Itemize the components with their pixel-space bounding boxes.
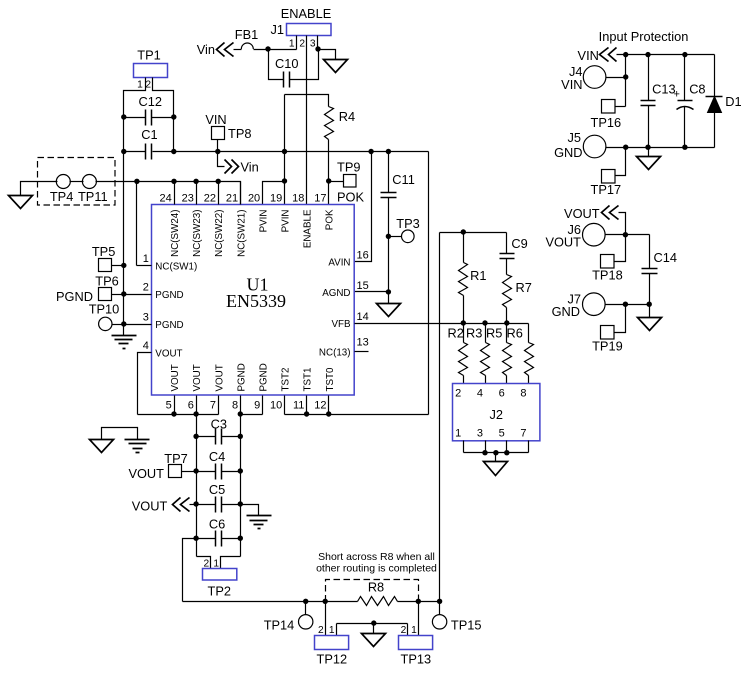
ground (J1 pin3) [324, 60, 348, 73]
wire R4 bottom to POK node [328, 140, 330, 182]
svg-text:VOUT: VOUT [132, 499, 168, 514]
svg-text:VIN: VIN [205, 112, 226, 127]
svg-text:5: 5 [166, 400, 172, 412]
junction TP5 node [121, 263, 126, 268]
wire R2 bottom lead [463, 376, 465, 384]
wire pin19 stub [284, 182, 286, 205]
wire TP4-TP11 [70, 181, 84, 183]
wire VIN vertical branch [625, 55, 627, 107]
svg-text:6: 6 [188, 400, 194, 412]
pin 7 stub [218, 396, 220, 415]
junction C4 left [193, 468, 198, 473]
J1 pin 1 stub [296, 36, 298, 50]
testpoint TP18 square [601, 255, 615, 269]
junction TP3 node [386, 234, 391, 239]
svg-text:17: 17 [314, 193, 326, 205]
wire pin17 POK stub [328, 182, 330, 205]
wire R1 top lead [463, 233, 465, 263]
off-page arrow VOUT right section [602, 206, 610, 220]
junction C6 right [238, 536, 243, 541]
junction J4 node [623, 74, 628, 79]
svg-text:PGND: PGND [259, 363, 270, 391]
svg-text:NC(SW22): NC(SW22) [214, 210, 225, 257]
ground shield (C5) [247, 516, 272, 529]
wire C14 top leg [649, 235, 651, 269]
wire TP3 stub [389, 236, 402, 238]
wire TP12 pin2 stub [325, 602, 327, 636]
testpoint TP19 square [601, 326, 615, 340]
capacitor C10 [284, 72, 290, 88]
wire R5 bottom lead [506, 376, 508, 384]
svg-text:TP17: TP17 [591, 182, 622, 197]
svg-text:TP5: TP5 [92, 244, 115, 259]
svg-text:AVIN: AVIN [328, 258, 350, 269]
capacitor C9 [500, 254, 515, 259]
pin 23 stub [196, 182, 198, 205]
wire C10 right leg [290, 50, 319, 80]
junction R1 top [461, 229, 466, 234]
wire pin20-pin19 link [263, 182, 285, 205]
junction AGND node [386, 289, 391, 294]
testpoint TP16 square [602, 100, 616, 114]
svg-text:VOUT: VOUT [192, 364, 203, 391]
junction rail at C11 [386, 149, 391, 154]
junction J2 ground stub [493, 450, 498, 455]
svg-text:GND: GND [552, 304, 580, 319]
wire TP5 stub [112, 265, 124, 267]
svg-text:C4: C4 [209, 449, 225, 464]
svg-text:R8: R8 [368, 580, 384, 595]
junction C14 bottom [647, 302, 652, 307]
svg-text:1: 1 [329, 625, 335, 636]
svg-text:C13: C13 [652, 82, 675, 97]
junction J2 pin3 [482, 450, 487, 455]
wire FB1 to J1 pin1 [254, 49, 297, 51]
pin 12 stub [328, 396, 330, 415]
ground (tie left triangle) [90, 440, 114, 453]
diode D1 [706, 96, 723, 98]
wire TST bus pins10-12 [285, 414, 429, 416]
testpoint TP10 circle [99, 317, 112, 330]
wire TP13 pin1 stub [418, 602, 420, 636]
svg-text:other routing is completed: other routing is completed [316, 563, 437, 575]
svg-text:15: 15 [357, 280, 369, 292]
svg-text:TP13: TP13 [401, 652, 432, 667]
ground (AGND) [377, 304, 401, 317]
svg-text:TP14: TP14 [264, 618, 295, 633]
wire TP12-TP13 ground link [337, 623, 408, 625]
svg-text:C5: C5 [209, 482, 225, 497]
testpoint TP7 square [169, 465, 182, 478]
resistor R8 [358, 597, 398, 606]
wire R3 bottom lead [485, 376, 487, 384]
wire D1 bottom leg [714, 113, 716, 148]
svg-text:20: 20 [248, 193, 260, 205]
wire TP17 branch [616, 148, 626, 176]
svg-text:18: 18 [292, 193, 304, 205]
TP1 pin 1 stub [124, 78, 146, 118]
svg-text:11: 11 [293, 400, 304, 412]
off-page arrow VOUT [173, 498, 181, 512]
junction VIN at TP16 branch [623, 52, 628, 57]
svg-text:Vin: Vin [197, 42, 215, 57]
svg-text:24: 24 [160, 193, 172, 205]
ground (J7) [638, 318, 662, 331]
wire C5 left leg [197, 504, 216, 506]
junction GND at C13 [645, 145, 650, 150]
wire PVIN vertical [284, 95, 286, 182]
testpoint TP9 square [344, 175, 357, 188]
ground shield (PGND vertical) [112, 336, 137, 349]
wire cap chain left rail [196, 415, 198, 557]
wire C11 top leg [388, 152, 390, 193]
wire pin1 vertical [136, 182, 138, 266]
svg-text:2: 2 [143, 282, 149, 294]
wire VFB line pin14 [355, 323, 529, 325]
pin 3 stub [124, 324, 152, 326]
wire TP16 stub [616, 106, 626, 108]
svg-text:C9: C9 [511, 236, 527, 251]
svg-text:J1: J1 [270, 22, 284, 37]
svg-text:22: 22 [204, 193, 216, 205]
svg-text:R7: R7 [516, 280, 532, 295]
svg-text:TST1: TST1 [303, 368, 314, 392]
svg-text:D1: D1 [725, 94, 741, 109]
testpoint TP1 header [134, 64, 168, 78]
off-page arrow Vin right [225, 160, 232, 174]
svg-text:TP7: TP7 [164, 451, 187, 466]
wire C8 bottom leg [684, 107, 686, 148]
wire cap chain right rail [240, 415, 242, 557]
svg-text:C3: C3 [211, 417, 227, 432]
svg-text:PGND: PGND [155, 320, 183, 331]
svg-text:TP11: TP11 [78, 189, 108, 204]
svg-text:AGND: AGND [322, 288, 350, 299]
ground shield (tie right) [125, 440, 150, 453]
capacitor C11 [381, 193, 397, 198]
junction bus pin5 [171, 411, 176, 416]
testpoint TP8 square [212, 127, 225, 140]
wire J2 bottom bus [464, 452, 529, 454]
svg-text:NC(SW1): NC(SW1) [155, 262, 197, 273]
J1 pin 2 stub [306, 36, 308, 205]
svg-text:TP4: TP4 [50, 189, 73, 204]
svg-text:VOUT: VOUT [564, 206, 600, 221]
svg-text:3: 3 [310, 39, 316, 50]
wire C1 left leg [124, 151, 146, 153]
junction C12 left [121, 114, 126, 119]
junction VFB at R7/R5 [504, 320, 509, 325]
wire TP2 pin1 jog [221, 557, 241, 569]
svg-text:POK: POK [337, 190, 364, 205]
wire C4 left leg [197, 471, 216, 473]
svg-text:1: 1 [143, 253, 149, 265]
svg-text:23: 23 [182, 193, 194, 205]
wire C5 right leg [222, 504, 241, 506]
testpoint TP3 circle [402, 230, 415, 243]
pin 6 stub [196, 396, 198, 415]
svg-text:TP15: TP15 [451, 618, 482, 633]
svg-text:C11: C11 [392, 172, 415, 187]
wire C3 right leg [222, 436, 241, 438]
wire rail corner down to TST bus [428, 152, 430, 415]
junction node C10 left [265, 46, 270, 51]
svg-text:VOUT: VOUT [128, 466, 164, 481]
svg-text:TST0: TST0 [325, 367, 336, 392]
wire J7 row [606, 304, 650, 306]
junction rail at TP8 [215, 149, 220, 154]
dashed short-across box [326, 580, 419, 602]
junction SW at pin24 [171, 179, 176, 184]
svg-text:13: 13 [357, 337, 369, 349]
wire C13 top leg [648, 55, 650, 101]
svg-text:21: 21 [226, 193, 238, 205]
wire J4 to VIN rail [606, 77, 626, 79]
J2 pin 7 stub [528, 441, 530, 453]
svg-text:4: 4 [477, 388, 483, 400]
svg-text:TP16: TP16 [591, 115, 622, 130]
svg-text:2: 2 [455, 388, 461, 400]
junction C1 right (rail) [171, 149, 176, 154]
TP1 pin 2 stub [153, 78, 174, 118]
wire TP4 to ground [21, 182, 58, 196]
wire C12-C1 right vertical [173, 118, 175, 152]
connector J1 [287, 24, 332, 36]
wire TP19 branch [615, 305, 626, 333]
svg-text:ENABLE: ENABLE [281, 6, 332, 21]
wire R3 top lead [485, 324, 487, 343]
wire J1 pin3 to ground [319, 50, 336, 60]
svg-text:C12: C12 [139, 94, 162, 109]
junction C3 right [238, 434, 243, 439]
junction ground link [371, 620, 376, 625]
testpoint TP14 circle [299, 615, 313, 629]
svg-text:R1: R1 [470, 268, 486, 283]
svg-text:+: + [674, 89, 680, 101]
wire C12 right leg [152, 117, 174, 119]
wire R7 bottom lead [506, 308, 508, 324]
resistor R1 [459, 263, 468, 296]
resistor R7 [503, 275, 512, 308]
svg-text:5: 5 [499, 428, 505, 440]
wire PGND bus pin8-9 [241, 414, 263, 416]
svg-text:TP19: TP19 [592, 339, 623, 354]
wire TP8 stub [217, 140, 219, 152]
pin 5 stub [174, 396, 176, 415]
wire ENABLE crossover horizontal to R4 top [285, 95, 329, 107]
wire C6 to bottom rail [183, 539, 197, 602]
capacitor C8 (polarized) [678, 100, 693, 102]
pin 9 stub [262, 396, 264, 415]
wire VOUT arrow to corner [619, 213, 626, 235]
wire C13 bottom leg [648, 106, 650, 148]
wire bottom rail right [398, 601, 440, 603]
connector J5 circle [583, 135, 606, 158]
wire C12-C1 left vertical [123, 118, 125, 152]
svg-text:VFB: VFB [331, 319, 351, 330]
svg-text:R4: R4 [339, 109, 355, 124]
junction SW at pin1 vertical [134, 179, 139, 184]
resistor R4 [325, 107, 334, 140]
capacitor C13 [641, 101, 656, 106]
wire R5 top lead [506, 324, 508, 343]
testpoint TP15 circle [432, 615, 446, 629]
wire C4 right leg [222, 471, 241, 473]
junction POK node [326, 178, 331, 183]
wire C9 to R7 [506, 259, 508, 275]
junction C1 left [121, 149, 126, 154]
junction TP12 pin2 [323, 599, 328, 604]
svg-text:GND: GND [554, 145, 582, 160]
wire J2 ground stub [495, 453, 497, 462]
junction C4 right [238, 468, 243, 473]
svg-text:14: 14 [357, 311, 369, 323]
resistor R2 [459, 343, 468, 376]
wire TP18 branch [615, 235, 626, 262]
junction TP6/pin2 node [121, 291, 126, 296]
svg-text:6: 6 [499, 388, 505, 400]
junction bus pin8 [238, 411, 243, 416]
svg-text:VOUT: VOUT [214, 364, 225, 391]
svg-text:16: 16 [357, 250, 369, 262]
pin 4 stub [138, 353, 152, 415]
svg-text:R5: R5 [486, 326, 502, 341]
wire C9 top leg [506, 233, 508, 254]
svg-text:3: 3 [477, 428, 483, 440]
svg-text:1: 1 [289, 39, 295, 50]
svg-text:J2: J2 [489, 407, 503, 422]
wire feedback top rail [440, 232, 507, 234]
pin 8 stub [240, 396, 242, 415]
svg-text:Vin: Vin [241, 160, 259, 175]
svg-text:TP18: TP18 [592, 268, 623, 283]
svg-text:TP8: TP8 [228, 126, 251, 141]
testpoint TP5 square [99, 259, 112, 272]
testpoint TP12 header [315, 636, 349, 650]
junction J2 pin5 [504, 450, 509, 455]
junction J7 node [623, 302, 628, 307]
svg-text:9: 9 [254, 400, 260, 412]
capacitor C6 [216, 531, 222, 547]
wire AGND ground stub [388, 292, 390, 304]
svg-text:R3: R3 [466, 326, 482, 341]
capacitor C5 [216, 497, 222, 513]
resistor R5 [503, 343, 512, 376]
wire VOUT arrow stub [190, 504, 197, 506]
svg-text:C10: C10 [275, 56, 298, 71]
ground tie bridge [102, 428, 138, 440]
pin 21 stub [240, 182, 242, 205]
pin 1 stub [137, 265, 152, 267]
svg-text:1: 1 [455, 428, 461, 440]
svg-text:1: 1 [137, 80, 143, 91]
junction GND at C8 [682, 145, 687, 150]
svg-text:TST2: TST2 [281, 368, 292, 392]
wire SW net TP11 to pins [96, 182, 241, 205]
wire bottom rail left [183, 601, 358, 603]
junction J6 node [623, 232, 628, 237]
connector J4 circle [583, 66, 606, 89]
svg-text:2: 2 [299, 39, 305, 50]
svg-text:NC(SW24): NC(SW24) [170, 210, 181, 257]
wire PGND left vertical [123, 152, 125, 336]
J1 pin 3 stub [317, 36, 319, 50]
pin 13 stub NC [355, 351, 369, 353]
pin 24 stub [174, 182, 176, 205]
wire C5 right to ground [241, 505, 259, 516]
svg-text:R6: R6 [507, 326, 523, 341]
svg-text:TP3: TP3 [396, 216, 419, 231]
wire C14 bottom leg [649, 274, 651, 305]
testpoint TP2 header [203, 569, 237, 581]
wire R6 bottom lead [528, 376, 530, 384]
ground (TP12/TP13) [362, 634, 386, 647]
svg-text:C1: C1 [141, 127, 157, 142]
junction TP10/pin3 node [121, 321, 126, 326]
wire TP13 pin2 stub [407, 624, 409, 636]
connector J6 circle [583, 223, 606, 246]
wire TP7 stub [182, 471, 197, 473]
wire long vertical VOUT sense [439, 233, 441, 602]
svg-text:TP9: TP9 [337, 160, 360, 175]
svg-text:7: 7 [210, 400, 216, 412]
wire TP12 pin1 stub [336, 624, 338, 636]
wire C3 left leg [197, 436, 216, 438]
svg-text:PVIN: PVIN [258, 210, 269, 233]
junction rail at PVIN [282, 149, 287, 154]
svg-text:VOUT: VOUT [545, 235, 581, 250]
junction SW at pin22 [216, 179, 221, 184]
J2 pin 5 stub [506, 441, 508, 453]
junction TP13 pin1 [416, 599, 421, 604]
wire J6 row [606, 234, 650, 236]
pin 2 stub [124, 294, 152, 296]
junction C3 left [193, 434, 198, 439]
svg-text:PGND: PGND [155, 290, 183, 301]
ground (J2) [484, 462, 508, 476]
svg-text:NC(SW21): NC(SW21) [236, 209, 247, 256]
svg-text:EN5339: EN5339 [226, 291, 286, 311]
wire C10 left leg [269, 50, 284, 80]
svg-text:NC(13): NC(13) [319, 347, 351, 358]
wire R2 top lead [463, 324, 465, 343]
wire jog to Vin arrow [218, 152, 225, 167]
wire D1 top leg [714, 55, 716, 97]
junction C12 right [171, 114, 176, 119]
svg-text:TP1: TP1 [137, 48, 160, 63]
capacitor C1 [146, 144, 152, 160]
junction GND at TP17 [623, 145, 628, 150]
svg-text:8: 8 [520, 388, 526, 400]
svg-text:TP12: TP12 [317, 652, 348, 667]
wire VIN top rail [617, 54, 715, 56]
svg-text:NC(SW23): NC(SW23) [192, 210, 203, 257]
ground (input protection) [637, 157, 661, 170]
svg-text:C8: C8 [689, 82, 705, 97]
testpoint TP17 square [602, 170, 616, 184]
svg-text:VOUT: VOUT [170, 364, 181, 391]
junction VFB at R3 [482, 320, 487, 325]
off-page arrow VIN [600, 48, 609, 62]
wire TP15 stub [439, 602, 441, 615]
pin 10 stub [284, 396, 286, 415]
wire AVIN vertical [355, 152, 372, 262]
dashed box TP4 TP11 [38, 158, 116, 206]
resistor R6 [525, 343, 534, 376]
svg-text:12: 12 [314, 400, 326, 412]
svg-text:Input Protection: Input Protection [599, 29, 689, 44]
svg-text:VIN: VIN [578, 48, 599, 63]
